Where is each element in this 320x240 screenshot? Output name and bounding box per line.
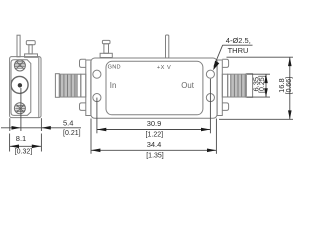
svg-text:In: In [110,81,117,90]
svg-text:+X V: +X V [157,65,171,71]
svg-text:[0.25]: [0.25] [259,75,266,93]
svg-text:16.8: 16.8 [277,78,286,93]
svg-text:[0.21]: [0.21] [63,130,81,137]
svg-text:30.9: 30.9 [147,119,162,128]
svg-text:8.1: 8.1 [16,134,26,143]
svg-text:GND: GND [108,65,121,71]
svg-text:34.4: 34.4 [147,140,162,149]
svg-text:[0.66]: [0.66] [286,77,293,95]
svg-text:5.4: 5.4 [63,119,73,128]
svg-text:[1.35]: [1.35] [146,152,164,159]
svg-text:[1.22]: [1.22] [146,131,164,138]
svg-text:4-Ø2.5,: 4-Ø2.5, [226,36,251,45]
svg-text:THRU: THRU [228,46,249,55]
svg-text:Out: Out [181,81,194,90]
svg-text:[0.32]: [0.32] [15,148,33,155]
